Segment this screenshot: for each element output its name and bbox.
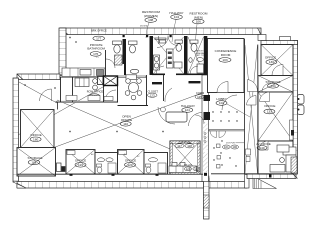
svg-text:OFFICE: OFFICE [30,133,41,137]
svg-text:BRK OFFICE: BRK OFFICE [91,29,107,33]
wall top-right band [258,35,298,45]
svg-text:ROOM: ROOM [221,53,231,57]
svg-text:(MEN): (MEN) [194,15,203,19]
open office big X [18,79,202,162]
counter labels [184,165,200,171]
waiting room small squares [217,144,221,168]
office 180 (left) [21,110,55,148]
small furniture rects above y101 wall [66,96,113,101]
svg-text:117: 117 [177,144,182,148]
lobby area dots [212,111,237,166]
lobby label [216,97,250,117]
svg-text:STORAGE: STORAGE [27,156,42,160]
corridor stub below building [204,176,210,219]
svg-text:130: 130 [269,60,274,64]
svg-text:ROW OFFICE: ROW OFFICE [87,89,104,93]
tiny wall notes on top band [140,26,149,28]
waiting room label [223,143,245,150]
svg-text:101: 101 [224,145,229,149]
small office desk (copier bank) [75,78,97,90]
svg-text:100: 100 [232,145,237,149]
svg-text:102: 102 [219,101,224,105]
open office door arc [158,107,175,124]
restroom X diagonals [154,37,204,74]
tiny door codes [91,57,140,158]
svg-text:181: 181 [31,161,36,165]
private bathroom labels [87,29,107,57]
lobby door arc [222,95,237,110]
svg-text:(WOMEN): (WOMEN) [144,14,158,18]
av office furniture [270,145,297,173]
svg-text:177: 177 [96,37,101,41]
svg-text:123: 123 [150,93,155,97]
svg-text:BATHROOM: BATHROOM [87,47,105,51]
bathroom B (bottom row) [144,153,168,175]
svg-text:OFFICE: OFFICE [265,56,276,60]
svg-text:121: 121 [186,167,191,171]
wall exterior top band [60,28,261,35]
kitchenette counter [62,68,105,77]
svg-text:122: 122 [194,167,199,171]
entry steps bottom right [253,175,277,189]
bathroom A (bottom row) [95,153,118,175]
svg-text:OFFICE: OFFICE [264,104,275,108]
wall left lower vertical band [13,78,19,182]
svg-text:106: 106 [196,20,201,24]
svg-text:OFFICE: OFFICE [125,159,136,163]
wall right vertical band [293,41,298,179]
storage 181 (left) [17,148,56,177]
conference room label [215,49,237,62]
wall bottom band [13,182,247,189]
svg-text:140: 140 [259,146,264,150]
women restroom fixtures [154,36,183,74]
private bathroom fixtures [106,41,123,76]
svg-text:103: 103 [222,58,227,62]
hatched office 117/118 [170,140,200,174]
hallway entry door at top band [168,36,178,46]
hallway-lobby rated wall (x201-210) [196,75,211,182]
small rr room fixtures [126,41,139,80]
svg-text:104: 104 [174,15,179,19]
conference room door [217,82,228,93]
closet door arc [165,88,172,102]
column marks in open office [24,37,164,133]
hallway 124 label [181,104,195,112]
office 130 label [265,56,277,65]
corridor between conference and offices [245,39,258,174]
svg-text:133: 133 [267,110,272,114]
closet 123 label [147,89,158,97]
svg-text:125: 125 [197,95,202,99]
office 180 door [40,89,52,101]
interior wall small rooms bottom (y102) [56,101,118,102]
door arcs below elevator [105,90,116,101]
elevator crosshatch box [98,76,118,86]
wall left upper vertical band [59,28,66,75]
comm label (below men rr) [195,91,204,99]
corridor panels [246,149,251,162]
office 130 (top right) [261,45,293,76]
office 178 label [87,89,104,98]
restroom block walls (poche) [123,36,208,84]
conference room [208,39,245,93]
interior wall verticals of small rooms [61,75,164,106]
svg-text:180: 180 [33,138,38,142]
breakroom table and chairs [125,79,142,100]
svg-text:124: 124 [185,108,190,112]
chase closet in restroom core [167,49,174,68]
svg-text:108: 108 [148,18,153,22]
lobby dividing wall [209,130,245,138]
men restroom notes [196,51,208,58]
bottom wall with columns [17,173,203,175]
right wall window bumps [298,95,305,115]
wall bottom-right connector [245,175,250,189]
av office 140 (bottom right) room [256,141,293,174]
niche between storage and office A [57,163,66,172]
svg-text:120: 120 [127,163,132,167]
svg-text:HALLWAY: HALLWAY [169,11,183,15]
svg-text:176: 176 [93,52,98,56]
svg-text:D5 W10: D5 W10 [140,26,149,28]
lobby bottom wall [211,173,293,175]
breakroom bottom wall [118,105,149,107]
svg-text:134: 134 [270,84,275,88]
office A (bottom row) [66,150,95,175]
svg-text:WK CTR: WK CTR [184,165,192,167]
interior wall top strip bottom (y77) [60,76,146,77]
storage 134 (right) [258,76,293,93]
men restroom fixtures [189,40,204,74]
svg-text:119: 119 [78,163,83,167]
top labels: restroom women [142,10,160,38]
svg-text:PART. TYP: PART. TYP [196,54,206,57]
top labels: restroom men [190,12,208,46]
office B (bottom row) [118,150,145,175]
wall left jog band [17,74,60,80]
wall right-bottom band [247,174,296,179]
corridor doors [248,80,258,92]
svg-text:OFFICE: OFFICE [75,159,86,163]
svg-text:110: 110 [123,122,128,126]
svg-text:118: 118 [187,144,192,148]
top labels: hallway 104 [169,11,183,42]
hallway counter at bottom [169,163,197,173]
column bump on top-right band [280,37,291,41]
open office label [120,115,132,127]
office 133 (right) [258,92,294,141]
reception desk [166,112,187,122]
corridor X [245,45,258,173]
